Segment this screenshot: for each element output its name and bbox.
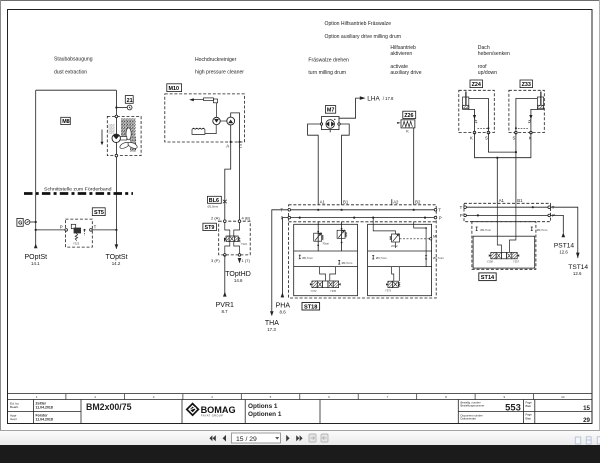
svg-text:dust extraction: dust extraction [54, 69, 87, 75]
junction G tap [35, 221, 37, 223]
wire S join to B1 [488, 133, 516, 204]
pump circle of M8 [112, 134, 120, 142]
svg-text:Dokumentart: Dokumentart [461, 417, 477, 421]
svg-text:T: T [438, 208, 441, 213]
svg-text:PVR1: PVR1 [216, 302, 234, 309]
node 21 test point [116, 96, 133, 110]
svg-text:12.6: 12.6 [573, 271, 582, 276]
first page button [209, 435, 215, 441]
next view icon (disabled) [321, 434, 328, 442]
gauge node G [17, 218, 36, 226]
orifice 0,7mm left A [299, 255, 301, 259]
motor M8 assembly box [107, 115, 141, 157]
ST18 label tag [302, 303, 320, 311]
svg-text:Z33: Z33 [522, 82, 531, 88]
svg-text:Ø0,7mm: Ø0,7mm [302, 256, 313, 260]
ST18 port ticks A1 B1 A2 B2 [391, 199, 393, 205]
motor M8 label [61, 117, 71, 124]
cylinder Z24 label [470, 80, 483, 88]
svg-text:8.7: 8.7 [221, 309, 228, 314]
wire TST14 [550, 207, 578, 258]
svg-text:3: 3 [153, 395, 155, 399]
svg-text:K: K [470, 135, 473, 140]
svg-text:Y324: Y324 [241, 242, 248, 246]
page layout icon partial [597, 436, 600, 443]
svg-text:K: K [529, 135, 532, 140]
node THA [265, 320, 279, 332]
svg-text:Z24: Z24 [472, 82, 481, 88]
svg-text:M7: M7 [327, 108, 335, 114]
wire K join to A1 [475, 133, 531, 204]
svg-text:THA: THA [265, 320, 279, 327]
orifice 0,7mm left B [338, 260, 340, 264]
cylinder Z33 body [537, 92, 543, 110]
Z33 ports [515, 131, 533, 134]
svg-text:LHA: LHA [367, 96, 380, 103]
svg-text:up/down: up/down [478, 70, 497, 76]
svg-text:17.3: 17.3 [267, 327, 276, 332]
svg-text:Fräswalze drehen: Fräswalze drehen [308, 57, 349, 63]
svg-text:21: 21 [127, 98, 133, 104]
ST14 label tag [479, 273, 496, 281]
node PST14 arrow [562, 232, 566, 237]
svg-text:Ø0,7mm: Ø0,7mm [433, 256, 444, 260]
ST9 internal wires [225, 223, 240, 254]
next page button [286, 434, 289, 441]
orifice 0,7mm right A [372, 255, 374, 259]
svg-text:Ø0,7mm: Ø0,7mm [342, 261, 353, 265]
svg-text:Gepr: Gepr [10, 417, 17, 421]
page layout icon continuous [586, 436, 591, 443]
orifice BL6 label [208, 196, 222, 203]
tank strainer glyph [192, 125, 216, 135]
svg-text:11.04.2018: 11.04.2018 [36, 406, 53, 410]
wire M7 left leg to A1 [308, 124, 321, 205]
valve block ST5 boundary [65, 219, 92, 247]
node TOptHD arrow [238, 258, 242, 263]
ST18 right sub-block [368, 224, 432, 295]
svg-text:9: 9 [503, 395, 505, 399]
svg-text:29: 29 [583, 417, 590, 424]
svg-text:P: P [460, 213, 463, 218]
svg-text:TST14: TST14 [568, 264, 588, 271]
Z24 ports [473, 131, 490, 134]
svg-text:Ø0,7mm: Ø0,7mm [376, 256, 387, 260]
solenoid valve Y372/Y335 [310, 281, 341, 288]
svg-text:Bearb.: Bearb. [10, 405, 19, 409]
fan/blower glyph of M8 [109, 119, 139, 152]
svg-text:Y258: Y258 [487, 260, 494, 264]
ST18 left sub-block [294, 224, 358, 295]
cylinder Z24 body [463, 92, 469, 110]
svg-text:B2: B2 [415, 199, 421, 204]
wire top horizontal POptSt branch [36, 89, 117, 91]
junction at 21 tap [115, 106, 117, 108]
valve block ST5 label [92, 208, 105, 216]
svg-text:4 (B): 4 (B) [242, 216, 251, 221]
svg-text:5: 5 [270, 395, 272, 399]
svg-text:Option auxiliary drive milling: Option auxiliary drive milling drum [325, 34, 401, 40]
unit M10 boundary [165, 94, 245, 142]
svg-text:Y257: Y257 [513, 260, 520, 264]
node LHA arrow and wire [339, 96, 366, 118]
cylinder Z33 label [520, 80, 533, 88]
svg-text:P: P [60, 224, 63, 229]
svg-text:A1: A1 [320, 199, 326, 204]
wire P to PVR1 [224, 255, 226, 297]
svg-text:8.6: 8.6 [280, 310, 287, 315]
svg-text:Ø0,7mm: Ø0,7mm [480, 228, 491, 232]
svg-text:A1: A1 [499, 198, 505, 203]
svg-text:auxiliary drive: auxiliary drive [390, 70, 421, 76]
svg-text:26bar: 26bar [391, 244, 398, 248]
svg-text:2 (A): 2 (A) [211, 216, 220, 221]
svg-text:A2: A2 [393, 199, 399, 204]
wire B2 into block [414, 222, 426, 267]
relief valve 70bar A [314, 231, 324, 247]
ST14 port labels [499, 198, 523, 203]
orifice 0,7mm ST14 left [476, 227, 478, 231]
svg-text:70bar: 70bar [322, 242, 329, 246]
orifice BL6 marker [223, 200, 227, 204]
svg-text:553: 553 [505, 401, 521, 412]
wire PST14 [550, 215, 563, 232]
svg-text:Bestellungsnummer: Bestellungsnummer [461, 403, 485, 407]
svg-text:8: 8 [445, 395, 447, 399]
svg-text:A: A [226, 143, 229, 148]
wire P branch to relief 26bar [373, 218, 395, 234]
node POptSt arrow [34, 244, 38, 249]
node PHA [276, 303, 291, 315]
previous page button [223, 434, 226, 441]
svg-text:Options 1: Options 1 [248, 403, 278, 410]
svg-text:Y335: Y335 [330, 289, 337, 293]
measuring port M dashed wire [400, 238, 432, 240]
Z33 wires [516, 99, 538, 133]
svg-text:/ 17.8: / 17.8 [383, 96, 394, 101]
node PVR1 [216, 302, 234, 314]
wire left vertical to POptSt [35, 90, 37, 248]
relief valve 70bar B [337, 228, 347, 244]
svg-text:FAYAT GROUP: FAYAT GROUP [201, 414, 223, 418]
junction P branch [35, 229, 37, 231]
junction T branch [115, 229, 117, 231]
svg-text:BL6: BL6 [209, 198, 219, 204]
svg-text:M: M [433, 233, 436, 238]
svg-text:S: S [513, 135, 516, 140]
svg-text:15: 15 [583, 405, 590, 412]
solenoid Z26 [397, 120, 415, 128]
wire THA from T rail [272, 210, 288, 316]
svg-text:Page: Page [526, 400, 533, 404]
svg-text:Ø1,0mm: Ø1,0mm [208, 204, 219, 208]
cylinder Z33 boundary [509, 90, 544, 132]
svg-text:S: S [485, 135, 488, 140]
svg-text:ST5: ST5 [94, 210, 104, 216]
wire E inside M10 [231, 113, 240, 142]
cylinder Z24 boundary [459, 90, 495, 132]
svg-text:M10: M10 [169, 86, 180, 92]
svg-text:M8: M8 [62, 119, 69, 125]
svg-text:aktivieren: aktivieren [390, 51, 412, 57]
svg-text:P: P [439, 215, 442, 220]
ST14 rail boundary [464, 203, 551, 221]
node TST14 [568, 264, 588, 276]
svg-text:2: 2 [94, 395, 96, 399]
ST14 inner block [473, 236, 535, 268]
node PVR1 arrow [223, 292, 227, 297]
svg-text:T: T [94, 224, 97, 229]
svg-text:TOptSt: TOptSt [105, 254, 127, 261]
solenoid valve Y324 [224, 236, 241, 243]
page layout icon single [575, 437, 580, 444]
last page button [296, 435, 302, 441]
svg-text:Z26: Z26 [404, 113, 413, 119]
orifice 0,7mm right B [425, 255, 427, 259]
svg-text:K: K [406, 130, 409, 134]
svg-text:Hochdruckreiniger: Hochdruckreiniger [195, 57, 237, 63]
svg-text:Staubabsaugung: Staubabsaugung [54, 57, 93, 63]
solenoid Z26 label [403, 111, 416, 118]
svg-text:ST18: ST18 [304, 305, 317, 311]
node THA arrow [270, 311, 274, 316]
wire right vertical through M8 to TOptSt [115, 90, 117, 249]
ST18 T rail [288, 209, 437, 212]
svg-text:7: 7 [387, 395, 389, 399]
wires to valve Y372/Y335 [320, 267, 336, 281]
valve block ST9 label [203, 223, 217, 230]
svg-text:Blatt: Blatt [526, 416, 532, 420]
solenoid valve Y258/Y257 [489, 252, 519, 258]
wire A1 into block [317, 222, 319, 251]
node TOptSt arrow [115, 244, 119, 249]
junction pilot tap in ST5 [84, 229, 86, 231]
rail junction dots [317, 209, 319, 211]
page number input box [232, 433, 281, 443]
svg-text:10: 10 [561, 395, 565, 399]
svg-text:Y372: Y372 [310, 289, 317, 293]
svg-text:14.1: 14.1 [31, 261, 40, 266]
svg-text:turn milling drum: turn milling drum [308, 70, 346, 76]
relief valve 26bar [390, 234, 400, 248]
svg-text:BOMAG: BOMAG [201, 405, 236, 415]
svg-text:14.6: 14.6 [234, 278, 243, 283]
Z24 lowering valve [473, 115, 488, 128]
ST14 T rail [464, 206, 551, 209]
svg-text:high pressure cleaner: high pressure cleaner [195, 70, 244, 76]
svg-text:6: 6 [328, 395, 330, 399]
svg-text:Ø0,7mm: Ø0,7mm [537, 228, 548, 232]
svg-text:ST14: ST14 [481, 275, 495, 281]
flow direction arrow left of M8 [101, 130, 104, 146]
node TOptHD [225, 271, 251, 283]
svg-text:4: 4 [211, 395, 213, 399]
svg-text:G: G [18, 221, 22, 227]
svg-text:Option Hilfsantrieb Fräswalze: Option Hilfsantrieb Fräswalze [325, 21, 392, 27]
ST14 internal wires [497, 203, 516, 252]
interface chain line [24, 192, 133, 195]
unit M10 label [167, 84, 182, 92]
previous view icon (disabled) [309, 434, 316, 442]
wire PHA from P rail [282, 218, 288, 298]
node TOptSt [105, 254, 127, 266]
svg-text:11.04.2018: 11.04.2018 [36, 417, 53, 421]
orifice 0,7mm ST14 right [531, 227, 533, 231]
motor M7 label [325, 106, 335, 114]
svg-text:3 (P): 3 (P) [211, 258, 220, 263]
solenoid valve Y323 [71, 224, 81, 240]
ST18 P rail [288, 216, 437, 219]
wire P to valve ST5 [36, 229, 66, 231]
wire B1 into block [341, 222, 343, 251]
svg-text:14.2: 14.2 [112, 261, 121, 266]
svg-text:1: 1 [36, 395, 38, 399]
wires to valve Y375 [392, 267, 400, 281]
svg-text:ST9: ST9 [205, 225, 215, 231]
port E junction [238, 141, 240, 143]
svg-text:PST14: PST14 [554, 242, 574, 249]
node PST14 [554, 242, 574, 254]
svg-text:BM2x00/75: BM2x00/75 [86, 402, 132, 412]
spray gun glyph [189, 98, 217, 117]
Z24 wires [469, 99, 489, 133]
port A junction [230, 141, 232, 143]
svg-text:heben/senken: heben/senken [478, 51, 510, 57]
Z33 lowering valve [517, 115, 533, 128]
svg-text:Schnittstelle zum Förderband: Schnittstelle zum Förderband [44, 186, 112, 192]
svg-text:Y375: Y375 [385, 289, 392, 293]
node TST14 arrow [576, 253, 580, 259]
svg-text:Blatt: Blatt [526, 404, 532, 408]
ST18 boundary [289, 205, 437, 298]
motor M7 [320, 117, 340, 133]
svg-text:Page: Page [526, 413, 533, 417]
BOMAG logo [187, 404, 236, 418]
svg-text:15 / 29: 15 / 29 [236, 436, 257, 443]
frame bottom ruler strip [8, 394, 593, 400]
svg-text:12.6: 12.6 [559, 249, 568, 254]
wire Z26 to B2 [413, 128, 415, 205]
ST14 P rail [464, 214, 551, 217]
ST14 outer boundary [472, 222, 536, 270]
node PHA arrow [281, 292, 285, 297]
svg-text:POptSt: POptSt [25, 254, 48, 261]
pump circles of M10 [213, 117, 235, 125]
svg-text:B1: B1 [517, 198, 523, 203]
svg-text:PHA: PHA [276, 303, 291, 310]
solenoid valve Y375 [386, 281, 400, 287]
svg-text:Optionen 1: Optionen 1 [248, 411, 282, 418]
svg-text:B1: B1 [343, 199, 349, 204]
node POptSt [25, 254, 48, 266]
wire A down to ST9 port 2 [225, 142, 231, 221]
svg-text:Y323: Y323 [73, 241, 80, 245]
wire valve ST5 T to TOptSt line [91, 229, 117, 231]
svg-text:1 (T): 1 (T) [242, 258, 251, 263]
wire E down to ST9 port 4 [239, 142, 241, 221]
title block texts [10, 400, 591, 424]
wire A inside M10 [230, 125, 232, 142]
valve block ST9 boundary [219, 220, 251, 256]
wire M7 right leg to B1 [340, 124, 349, 205]
title block grid [8, 400, 593, 424]
svg-text:T: T [460, 205, 463, 210]
